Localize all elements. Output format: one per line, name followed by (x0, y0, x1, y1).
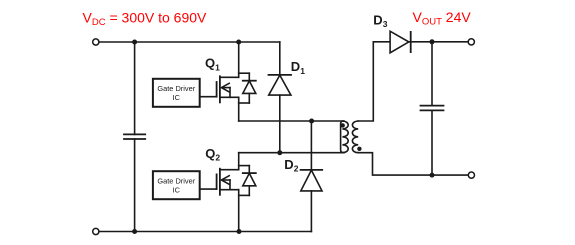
diode D1 (269, 42, 292, 153)
gate driver IC 2 box (153, 171, 200, 199)
svg-text:D2: D2 (284, 157, 298, 174)
body diode of Q2 (239, 166, 256, 196)
wire D3 cathode to output positive (409, 41, 468, 43)
gate driver IC 1 box (153, 79, 200, 107)
wire Q2 drain up to node B (238, 153, 240, 170)
wire input cap branch lower (134, 139, 136, 232)
terminal DC input negative (93, 228, 99, 234)
transformer T1 secondary winding scalloped edge (352, 121, 358, 153)
wire gate driver 2 to Q2 gate (200, 188, 217, 190)
svg-text:Q1: Q1 (205, 56, 220, 73)
wire input cap branch upper (134, 42, 136, 134)
transformer T1 secondary polarity dot (357, 147, 361, 151)
junction node A to D2 cathode (309, 119, 314, 124)
junction input cap bottom (132, 229, 137, 234)
svg-text:VOUT 24V: VOUT 24V (413, 9, 472, 28)
wire secondary top to D3 anode (358, 42, 390, 121)
capacitor C_in (124, 134, 145, 139)
svg-text:Gate Driver: Gate Driver (157, 84, 195, 93)
svg-text:VDC = 300V to 690V: VDC = 300V to 690V (83, 10, 208, 29)
junction Q1 drain top rail (236, 40, 241, 45)
wire output cap branch upper (431, 42, 433, 106)
diode D2 (301, 121, 323, 232)
junction Q2 source bottom rail (237, 229, 242, 234)
transformer T1 primary left closing edge (341, 121, 344, 153)
wire bottom rail (99, 231, 311, 233)
transformer T1 primary polarity dot (341, 123, 345, 127)
wire secondary bottom to output negative (358, 153, 468, 175)
junction input cap top (132, 40, 137, 45)
svg-text:IC: IC (173, 93, 181, 102)
svg-text:IC: IC (173, 186, 181, 195)
wire Q1 source down to node A (238, 97, 240, 121)
svg-text:D1: D1 (291, 59, 305, 76)
terminal output positive (468, 39, 474, 45)
transistor Q1 (217, 76, 239, 102)
transformer T1 primary winding scalloped edge (342, 121, 348, 153)
wire node A horizontal (Q1 source to primary top) (239, 120, 344, 122)
wire top rail (99, 41, 280, 43)
wire node B horizontal (Q2 drain to primary bottom) (239, 152, 344, 154)
wire gate driver 1 to Q1 gate (200, 96, 217, 98)
terminal output negative (468, 172, 474, 178)
capacitor C_out (421, 106, 444, 111)
wire Q1 drain to top rail (238, 42, 240, 77)
transistor Q2 (217, 169, 239, 195)
svg-text:Q2: Q2 (205, 146, 220, 163)
wire Q2 source down to bottom rail (238, 190, 240, 232)
junction output cap bottom (430, 173, 435, 178)
diode D3 (390, 31, 411, 53)
terminal DC input positive (93, 39, 99, 45)
body diode of Q1 (239, 73, 256, 103)
wire output cap branch lower (431, 110, 433, 175)
svg-text:Gate Driver: Gate Driver (157, 176, 195, 185)
svg-text:D3: D3 (373, 12, 387, 29)
junction node B to D1 anode (277, 150, 282, 155)
junction output cap top (430, 39, 435, 44)
